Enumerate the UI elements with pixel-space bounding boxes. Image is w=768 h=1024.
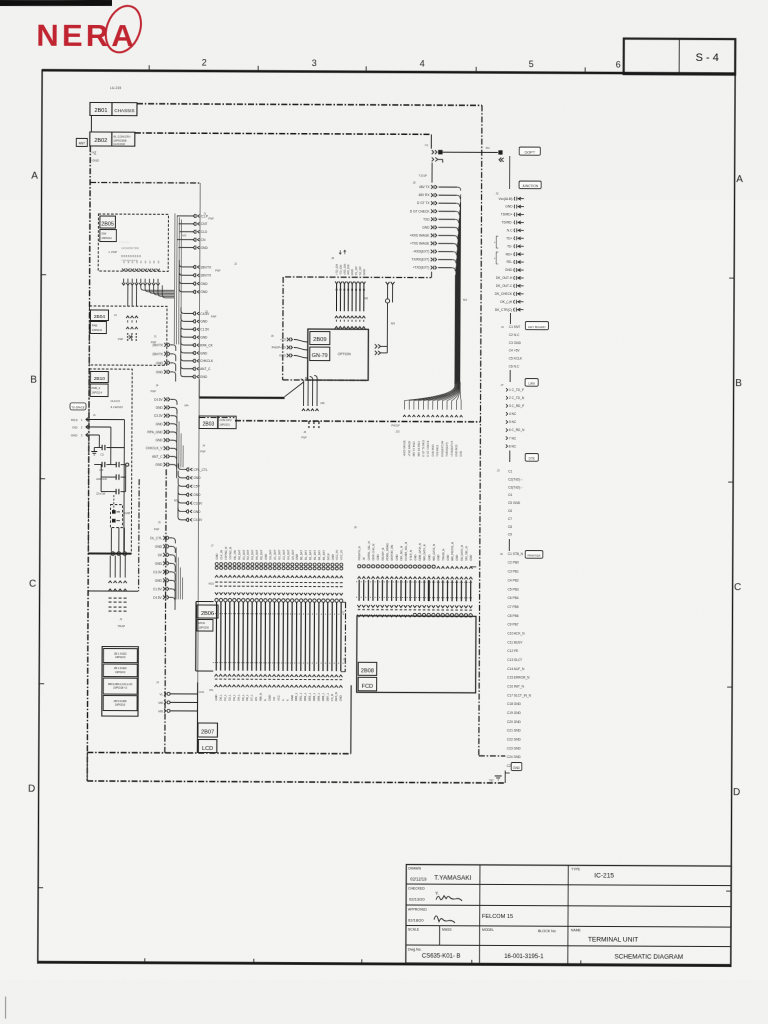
- wire sw box outputs: [122, 279, 174, 307]
- wire cpu bus dash-dot: [235, 421, 480, 422]
- label TO-SPACE: [70, 403, 86, 410]
- connector rows 28V: [151, 334, 176, 381]
- pcb boundary bottom corner: [479, 755, 505, 757]
- connector rows DL: [150, 520, 183, 610]
- connector J7 LAN: [500, 370, 538, 449]
- frame bottom border: [38, 962, 731, 965]
- wire gn79 to bus bundle: [300, 375, 325, 439]
- wire 2B10 boundary right: [138, 479, 141, 591]
- frame top border: [42, 70, 735, 73]
- wire mid vertical dash-dot: [165, 469, 166, 752]
- ground symbol: [495, 775, 502, 777]
- block 2B07 LCD: [197, 682, 351, 753]
- frame zone ruler top: [145, 57, 621, 964]
- block 2B06 MCN: [196, 601, 347, 671]
- connector J8 bundle: [331, 250, 369, 329]
- connector J2 JUNCTION: [493, 181, 541, 312]
- block 2B08 FCD: [357, 616, 476, 693]
- wire spine vertical: [197, 183, 200, 753]
- connector DOPT pins: [499, 150, 501, 154]
- connector rows J4: [146, 383, 184, 478]
- NERA logo ellipse: [100, 1, 148, 57]
- connector J10 comb: [391, 381, 463, 456]
- wire bundle M3 vertical: [455, 194, 461, 384]
- gn79 bottom dash: [283, 379, 368, 381]
- connector rows group1: [174, 211, 214, 344]
- wire lower-left box top rail: [88, 590, 138, 592]
- frame left border: [38, 69, 42, 963]
- block 2B02 W_CON/CPU: [90, 132, 112, 146]
- wire 2B01 chassis dash-dot bus: [137, 104, 482, 106]
- wire bottom rail 2: [87, 781, 505, 783]
- wire bus y277: [285, 276, 431, 279]
- connector J3 DTE: [496, 450, 538, 536]
- wire thick bar: [200, 396, 285, 399]
- wire option feed Y: [375, 282, 396, 355]
- connector rows group2: [179, 260, 237, 294]
- comb FCD interface: [353, 525, 476, 617]
- connector rows VL MD: [156, 680, 198, 713]
- frame right border: [731, 75, 735, 967]
- sheet number box S-4: [624, 39, 736, 75]
- connector rows M5: [174, 443, 208, 522]
- gn79 module boundary left: [282, 277, 285, 380]
- block 2B05 SW: [98, 214, 168, 271]
- wire bottom left join: [86, 752, 88, 780]
- connector ANT box: [76, 138, 87, 146]
- scan mark bottom-left: [5, 997, 7, 1019]
- connector J5 rows: [409, 163, 461, 278]
- connector J1 KEY BOARD: [501, 313, 549, 369]
- wire 2B01-2B02 stub: [90, 115, 92, 131]
- wire NT to DOPT: [443, 151, 498, 153]
- block 2B03 CON-CPU: [199, 416, 218, 429]
- comb LCD interface: [208, 544, 344, 702]
- wire gnd drop: [504, 780, 506, 783]
- block 2B10 PAB_2: [88, 369, 132, 554]
- wire bottom rail 1: [87, 752, 350, 753]
- wire DOPT spine: [509, 156, 511, 189]
- left main bus: [87, 146, 90, 781]
- block 2B11-2B15 list: [102, 647, 139, 717]
- connector TRAP bundle: [108, 556, 127, 629]
- label DOPT: [519, 147, 540, 155]
- block 2B09 GN-79: [308, 329, 369, 380]
- wire gnd stub: [504, 770, 506, 779]
- connector J9 rows: [271, 334, 308, 358]
- connector rows group3: [181, 307, 217, 379]
- component network 2B10 internals: [70, 413, 132, 556]
- wire 2B02 dash-dot bus: [135, 133, 431, 134]
- label GND box: [511, 763, 522, 771]
- connector J4 PRINTER: [499, 539, 543, 768]
- frame zone ruler sides: [28, 171, 744, 891]
- block 2B04 PAB: [89, 306, 167, 365]
- pcb boundary right dash-dot: [479, 105, 482, 755]
- title block: [406, 865, 731, 965]
- wire 2B02 module boundary: [90, 181, 200, 184]
- page top scan strip: [0, 0, 112, 6]
- wire cpu bus left: [199, 416, 234, 418]
- block 2B01 CHASSIS: [90, 102, 112, 115]
- wire 2B02 down corner: [430, 134, 432, 148]
